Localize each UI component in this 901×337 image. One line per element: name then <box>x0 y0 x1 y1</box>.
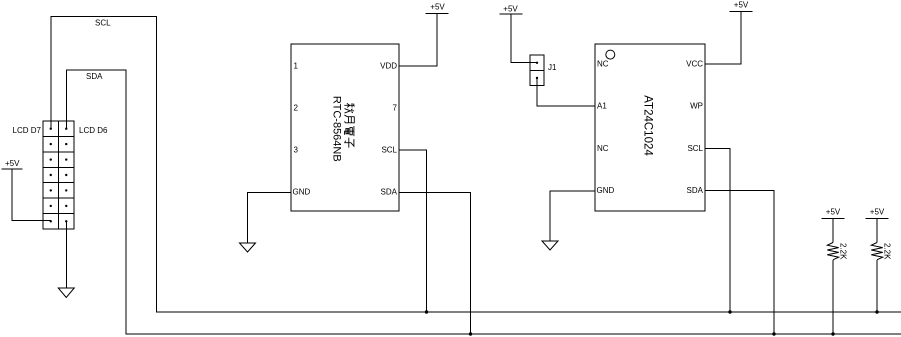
junction (R2 / SCL bus) <box>875 310 878 313</box>
value label Akizuki Denshi CJK (drawn strokes, rotated) <box>344 103 354 147</box>
svg-text:SCL: SCL <box>95 19 111 28</box>
wire U1 VDD to +5V <box>399 14 437 66</box>
svg-text:NC: NC <box>597 60 609 69</box>
svg-text:VCC: VCC <box>686 60 703 69</box>
svg-text:J1: J1 <box>548 63 557 72</box>
ground (header) <box>58 288 74 298</box>
wire U2 SDA to bus <box>705 191 774 335</box>
power +5V symbol (U1 VDD) <box>426 13 449 15</box>
svg-text:SDA: SDA <box>687 186 704 195</box>
svg-text:SCL: SCL <box>687 144 703 153</box>
svg-text:NC: NC <box>597 144 609 153</box>
power +5V symbol (left, header supply) <box>2 169 51 221</box>
svg-text:SDA: SDA <box>86 72 103 81</box>
wire U2 SCL to bus <box>705 148 730 312</box>
wire U1 GND to ground <box>248 192 292 243</box>
svg-text:SCL: SCL <box>381 146 397 155</box>
svg-text:1: 1 <box>294 62 299 71</box>
op-amp U1 RTC-8564NB box <box>291 44 399 211</box>
wire net SDA (header pin to bus) <box>66 70 901 334</box>
svg-text:WP: WP <box>690 102 703 111</box>
jumper J1 <box>530 55 544 85</box>
svg-text:RTC-8564NB: RTC-8564NB <box>331 96 343 162</box>
svg-text:+5V: +5V <box>870 207 885 216</box>
op-amp U2 AT24C1024 box <box>595 44 705 211</box>
power +5V symbol (U2 VCC) <box>730 11 753 13</box>
svg-text:2: 2 <box>294 104 299 113</box>
wire U1 SCL to bus <box>399 150 427 312</box>
ground (U1) <box>240 243 256 252</box>
junction (R1 / SDA bus) <box>831 332 834 335</box>
wire U2 GND to ground <box>550 191 595 241</box>
svg-text:A1: A1 <box>597 102 607 111</box>
svg-text:+5V: +5V <box>5 159 20 168</box>
wire U2 VCC to +5V <box>705 12 741 65</box>
svg-text:GND: GND <box>597 186 615 195</box>
junction (U1 SCL / bus) <box>425 310 428 313</box>
power +5V symbol (R1 pull-up) <box>822 218 845 220</box>
svg-text:AT24C1024: AT24C1024 <box>642 95 654 156</box>
svg-text:LCD D6: LCD D6 <box>79 126 108 135</box>
svg-text:VDD: VDD <box>380 62 397 71</box>
svg-text:3: 3 <box>294 146 299 155</box>
svg-text:+5V: +5V <box>430 3 445 12</box>
ground (U2) <box>542 241 558 250</box>
junction (U2 SDA / bus) <box>772 332 775 335</box>
resistor R1 2.2K (SDA pull-up) <box>832 219 834 335</box>
svg-text:+5V: +5V <box>734 0 749 9</box>
svg-text:GND: GND <box>293 188 311 197</box>
junction (U2 SCL / bus) <box>728 310 731 313</box>
resistor R2 2.2K (SCL pull-up) <box>876 219 878 313</box>
svg-text:7: 7 <box>393 104 398 113</box>
wire header pin to ground <box>65 221 67 288</box>
junction (U1 SDA / bus) <box>469 332 472 335</box>
pin 1 indicator circle <box>606 50 615 59</box>
wire J1 to U2 A1 <box>537 78 595 106</box>
svg-text:LCD D7: LCD D7 <box>13 126 42 135</box>
power +5V symbol (R2 pull-up) <box>866 218 889 220</box>
svg-text:2.2K: 2.2K <box>839 243 848 260</box>
svg-text:SDA: SDA <box>381 188 398 197</box>
wire +5V to J1 <box>511 14 537 62</box>
svg-text:+5V: +5V <box>826 207 841 216</box>
svg-text:+5V: +5V <box>503 4 518 13</box>
connector CN1 pin header 2x7 <box>43 121 74 229</box>
power +5V symbol (J1 supply) <box>500 13 523 15</box>
wire U1 SDA to bus <box>399 192 471 334</box>
svg-text:2.2K: 2.2K <box>883 243 892 260</box>
